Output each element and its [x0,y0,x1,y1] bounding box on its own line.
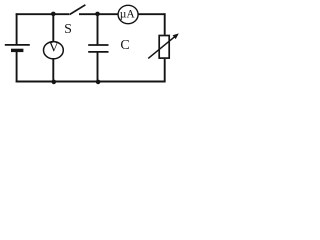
microammeter U1 circle [118,5,138,23]
svg-text:C: C [120,38,129,53]
wire left side upper (top-left corner down to battery) [16,13,18,45]
wire top segment from switch to ammeter [79,13,119,15]
node junction bottom of voltmeter branch [52,80,57,85]
capacitor C bottom plate [88,51,108,53]
svg-text:µA: µA [120,8,136,20]
node junction top of capacitor branch [95,12,100,17]
wire bottom rail [16,81,166,83]
wire capacitor branch upper [97,14,99,45]
voltmeter V circle [44,42,64,59]
battery B1 long plate (positive) [5,44,30,46]
rheostat R body rectangle [159,36,169,59]
wire top segment from top-left corner to switch [16,13,69,15]
battery B1 short thick plate (negative) [11,49,23,52]
wire capacitor branch lower [97,52,99,82]
wire left side lower (battery down to bottom-left corner) [16,50,18,82]
wire right side lower (rheostat down to bottom-right corner) [164,59,166,83]
wire voltmeter branch upper [52,14,54,42]
svg-text:S: S [64,22,72,37]
switch S blade [69,5,85,15]
rheostat arrow (variable indicator) [148,33,179,58]
wire right side upper (top-right corner down to rheostat) [164,13,166,35]
svg-text:V: V [49,40,59,55]
node junction bottom of capacitor branch [96,80,101,85]
capacitor C top plate [88,44,108,46]
node junction top of voltmeter branch [51,12,56,17]
wire top segment from ammeter to top-right corner [138,13,166,15]
wire voltmeter branch lower [52,59,54,82]
